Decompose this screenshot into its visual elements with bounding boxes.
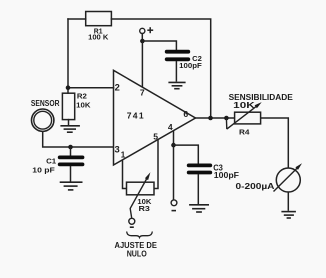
svg-text:4: 4 — [168, 122, 173, 132]
svg-text:100 K: 100 K — [88, 35, 108, 42]
wire top feedback right segment — [111, 19, 210, 118]
node junction V+/C2/pin7 — [140, 39, 145, 44]
R3 wiper arrow — [130, 179, 147, 209]
ground below meter — [281, 212, 296, 218]
svg-text:10 pF: 10 pF — [32, 166, 55, 175]
svg-text:R2: R2 — [77, 92, 87, 101]
svg-text:0-200µA: 0-200µA — [236, 182, 275, 191]
ground below R2 — [60, 126, 80, 132]
wire output pin6 — [196, 117, 235, 119]
svg-text:R4: R4 — [239, 128, 250, 137]
svg-text:741: 741 — [127, 110, 145, 120]
wire pin4 vertical — [173, 131, 175, 200]
svg-text:100pF: 100pF — [179, 61, 202, 70]
terminal V+ — [140, 28, 145, 33]
svg-text:C1: C1 — [46, 157, 56, 166]
brace under null terminal — [127, 232, 153, 238]
sensor transducer inner circle — [34, 111, 52, 129]
wire left vertical to pin2 — [67, 19, 69, 88]
label R1 — [88, 28, 108, 41]
wire C1 bottom lead — [70, 166, 72, 182]
meter needle arrow — [274, 168, 298, 192]
svg-text:SENSOR: SENSOR — [31, 99, 60, 108]
sensor transducer outer circle — [32, 109, 54, 131]
capacitor C3 — [189, 165, 211, 172]
wire C2 bottom lead — [175, 61, 177, 82]
label minus sign V- — [172, 210, 177, 212]
ground below C2 — [168, 82, 185, 88]
node junction feedback/output — [208, 116, 213, 121]
wire V+ to junction — [141, 34, 143, 42]
label plus sign — [147, 27, 153, 33]
wire pin5 to R3 — [154, 140, 158, 189]
wire sensor to pin3 — [43, 132, 114, 147]
wire junction to C3 — [174, 145, 199, 164]
wire R4 to meter — [261, 118, 289, 168]
label R3 10K — [137, 197, 152, 213]
node junction pin4/C3 — [171, 143, 176, 148]
svg-text:6: 6 — [183, 109, 188, 119]
svg-text:7: 7 — [140, 88, 145, 98]
node junction wiper/output — [224, 116, 229, 121]
op-amp U1 741 triangle — [114, 70, 196, 165]
terminal null adjust — [129, 218, 135, 224]
node junction R2/pin2 — [66, 85, 71, 90]
wire pin1 to R3 — [123, 160, 127, 189]
svg-text:R3: R3 — [139, 204, 150, 213]
wire C1 top lead — [70, 147, 72, 156]
label C2 — [179, 54, 202, 70]
ground below C3 — [189, 205, 209, 212]
wire meter to ground — [287, 192, 289, 211]
wire junction to C2 — [142, 41, 176, 50]
ground below C1 — [60, 182, 83, 190]
R4 wiper arrow — [227, 106, 257, 129]
node junction C1/pin3 — [68, 145, 73, 150]
terminal V- — [171, 200, 177, 206]
wire pin7 vertical — [141, 41, 143, 87]
label C3 — [213, 163, 239, 180]
wire R2 top lead — [67, 88, 69, 94]
svg-text:2: 2 — [115, 81, 120, 92]
meter M1 circle — [276, 168, 300, 192]
svg-text:1: 1 — [121, 151, 126, 160]
potentiometer R3 — [127, 182, 155, 195]
wire pin2 — [68, 87, 114, 89]
resistor R1 — [86, 12, 112, 26]
capacitor C1 — [60, 157, 83, 164]
wire R2 bottom lead — [68, 120, 70, 126]
wire top feedback left segment — [68, 18, 86, 20]
label minus sign null — [130, 226, 134, 228]
svg-text:3: 3 — [115, 144, 120, 155]
wire R4 wiper tail — [225, 118, 227, 129]
potentiometer R4 — [235, 112, 261, 124]
capacitor C2 — [167, 52, 189, 60]
svg-text:NULO: NULO — [127, 249, 147, 258]
wire wiper to terminal — [130, 209, 132, 219]
svg-text:10K: 10K — [76, 100, 91, 109]
svg-text:100pF: 100pF — [214, 171, 239, 180]
resistor R2 — [62, 93, 74, 119]
wire C3 bottom lead — [197, 174, 199, 204]
label R2 — [76, 92, 91, 110]
label C1 — [32, 157, 56, 175]
